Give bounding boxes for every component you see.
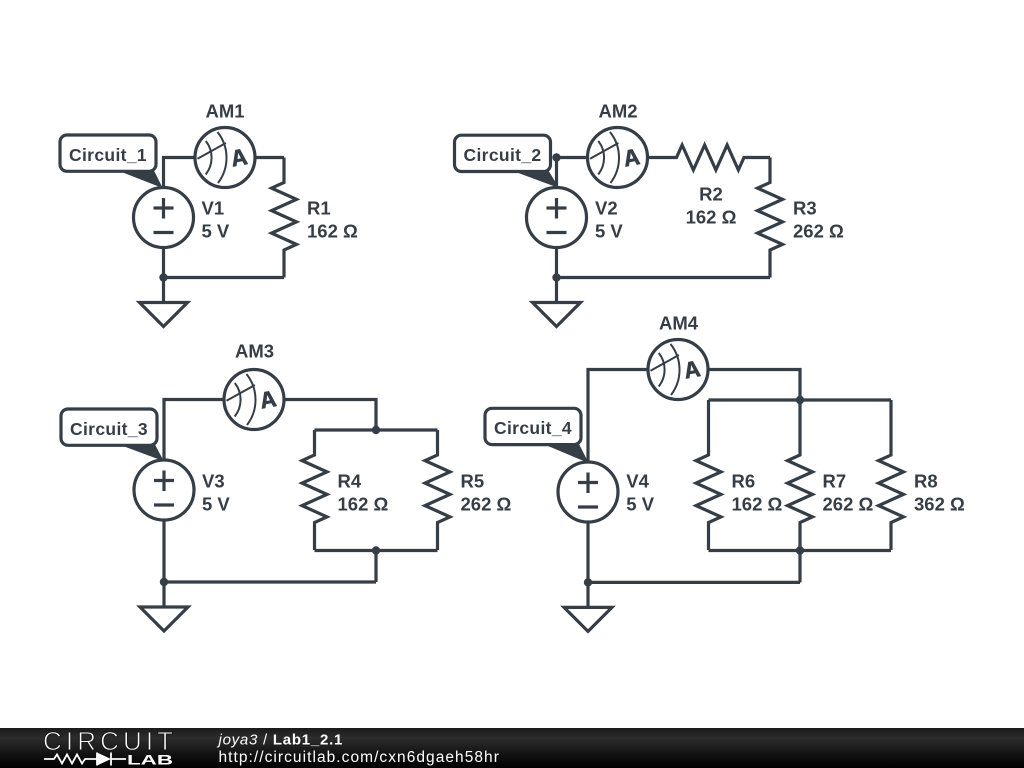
label R6 value bbox=[732, 496, 783, 514]
ground bbox=[140, 278, 188, 327]
callout text Circuit_4 bbox=[494, 420, 572, 438]
ground bbox=[533, 278, 581, 327]
wire (top rail) bbox=[315, 428, 438, 431]
junction bbox=[159, 273, 167, 281]
callout Circuit_3 bbox=[61, 409, 163, 460]
resistor R4 bbox=[302, 430, 327, 550]
label AM2 bbox=[598, 102, 637, 121]
wire bbox=[374, 551, 377, 583]
label R4 value bbox=[338, 496, 389, 514]
label R3 value bbox=[793, 222, 844, 241]
label R2 bbox=[699, 185, 723, 204]
resistor R5 bbox=[425, 430, 450, 550]
junction bbox=[372, 546, 380, 554]
resistor R7 bbox=[788, 430, 813, 550]
label R8 value bbox=[914, 496, 965, 514]
wire bbox=[588, 370, 648, 463]
wire (R8 stub) bbox=[889, 400, 892, 430]
label AM4 bbox=[659, 314, 698, 333]
callout Circuit_4 bbox=[485, 408, 588, 462]
callout text Circuit_1 bbox=[69, 147, 147, 165]
logo resistor-diode squiggle bbox=[44, 753, 126, 766]
label AM3 bbox=[235, 343, 274, 362]
label R5 value bbox=[461, 496, 512, 514]
label R5 bbox=[461, 473, 485, 492]
wire bbox=[557, 276, 771, 279]
wire bbox=[162, 248, 165, 278]
ground bbox=[140, 582, 188, 631]
wire bbox=[164, 276, 285, 279]
label R1 bbox=[307, 199, 331, 218]
label R8 bbox=[914, 473, 938, 492]
wire bbox=[162, 520, 165, 582]
wire bbox=[586, 522, 589, 582]
wire bbox=[164, 158, 195, 188]
resistor R2 bbox=[648, 145, 770, 170]
label V2 value bbox=[595, 222, 623, 241]
voltage source V4 bbox=[558, 462, 618, 522]
callout text Circuit_2 bbox=[463, 147, 541, 165]
label R1 value bbox=[307, 222, 358, 241]
callout Circuit_1 bbox=[60, 135, 162, 187]
wire (bottom rail) bbox=[315, 549, 438, 552]
callout Circuit_2 bbox=[455, 135, 559, 187]
resistor R6 bbox=[696, 430, 721, 550]
ammeter AM2 bbox=[588, 128, 648, 188]
label R3 bbox=[793, 199, 817, 218]
label R6 bbox=[732, 473, 756, 492]
wire bbox=[798, 551, 801, 583]
label V3 value bbox=[202, 496, 230, 514]
wire bbox=[164, 400, 224, 461]
label V3 bbox=[202, 473, 225, 492]
voltage source V2 bbox=[527, 188, 587, 248]
label AM1 bbox=[205, 102, 244, 121]
resistor R1 bbox=[272, 158, 297, 278]
resistor R3 bbox=[758, 158, 783, 278]
logo text LAB bbox=[127, 751, 173, 767]
wire bbox=[555, 248, 558, 278]
logo text CIRCUIT bbox=[43, 727, 177, 753]
label V4 value bbox=[626, 496, 654, 514]
ammeter AM4 bbox=[648, 340, 708, 400]
footer title bbox=[219, 732, 344, 747]
junction bbox=[552, 153, 560, 161]
wire (R6 stub) bbox=[707, 400, 710, 430]
label V1 bbox=[202, 199, 225, 218]
ammeter AM3 bbox=[224, 370, 284, 430]
wire bbox=[256, 156, 285, 159]
wire (bottom rail) bbox=[709, 549, 892, 552]
junction bbox=[160, 578, 168, 586]
wire (R7 stub) bbox=[798, 400, 801, 430]
wire bbox=[284, 400, 376, 431]
wire bbox=[588, 581, 800, 584]
label V1 value bbox=[202, 222, 230, 241]
label R4 bbox=[338, 473, 362, 492]
ground bbox=[564, 582, 612, 631]
junction bbox=[796, 546, 804, 554]
voltage source V1 bbox=[134, 188, 194, 248]
label R7 value bbox=[823, 496, 874, 514]
resistor R8 bbox=[879, 430, 904, 550]
label R2 value bbox=[686, 208, 737, 227]
junction bbox=[584, 578, 592, 586]
voltage source V3 bbox=[134, 460, 194, 520]
footer url bbox=[219, 749, 500, 765]
wire bbox=[708, 370, 800, 401]
ammeter AM1 bbox=[195, 128, 255, 188]
wire bbox=[164, 580, 376, 583]
callout text Circuit_3 bbox=[70, 421, 148, 439]
junction bbox=[796, 396, 804, 404]
wire (top rail) bbox=[709, 398, 892, 401]
label R7 bbox=[823, 473, 847, 492]
label V4 bbox=[626, 473, 649, 492]
junction bbox=[552, 273, 560, 281]
wire bbox=[557, 158, 588, 188]
logo diode symbol bbox=[97, 753, 111, 766]
junction bbox=[372, 426, 380, 434]
label V2 bbox=[595, 199, 618, 218]
